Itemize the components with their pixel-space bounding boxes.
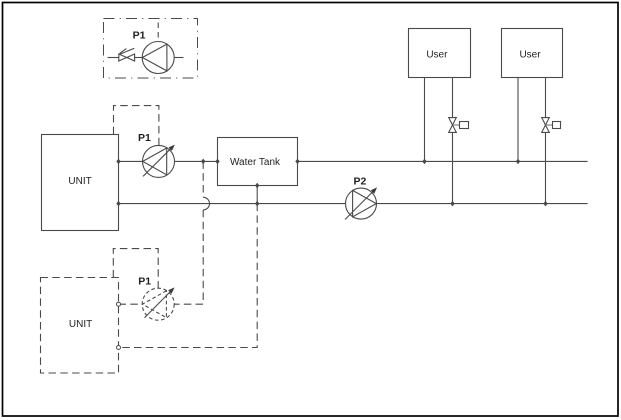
wire user2 supply drop <box>517 78 519 162</box>
pump P2 (variable speed) <box>345 188 377 219</box>
callout C2 (dashed, above future pump) <box>113 249 158 288</box>
wire lower pipe: unit to pump P2 <box>119 203 346 205</box>
wire hop arc over lower pipe <box>203 197 209 210</box>
svg-text:P1: P1 <box>138 132 151 144</box>
svg-text:User: User <box>426 50 448 61</box>
unit box U2 (dashed future) <box>41 278 119 374</box>
wire dashed future pump inlet <box>119 303 143 305</box>
wire user2 return lower <box>545 132 547 203</box>
svg-text:P2: P2 <box>354 176 367 188</box>
wire tank bottom drop <box>256 186 258 204</box>
valve V3 (user2 control valve) <box>542 118 561 133</box>
wire detail outlet stub <box>174 57 183 59</box>
svg-text:UNIT: UNIT <box>69 319 92 330</box>
wire user2 return upper <box>545 78 547 118</box>
wire lower pipe: pump P2 to right end <box>377 203 588 205</box>
detail box D1 (dash-dot callout, top-left) <box>104 19 198 79</box>
wire dashed future return riser <box>119 204 258 348</box>
pump symbol (detail box) <box>142 42 174 74</box>
svg-text:User: User <box>519 50 541 61</box>
unit box U1 (solid) <box>42 135 119 231</box>
user box 1 <box>409 29 471 78</box>
callout C1 (dashed, above pump P1) <box>114 106 159 146</box>
wire user1 return upper <box>452 78 454 118</box>
svg-text:P1: P1 <box>133 29 146 41</box>
valve V1 (balancing valve in detail box) <box>119 48 135 61</box>
wire valve to pump <box>135 57 143 59</box>
user box 2 <box>502 29 563 78</box>
pump P1 (variable speed) <box>143 145 175 177</box>
wire detail top dashed stub <box>157 23 159 42</box>
svg-text:Water Tank: Water Tank <box>230 157 281 168</box>
wire upper pipe: pump to water tank <box>175 160 218 162</box>
wire detail inlet stub <box>108 57 119 59</box>
wire dashed future supply riser <box>174 161 203 304</box>
wire upper pipe: tank to right end <box>298 160 588 162</box>
valve V2 (user1 control valve) <box>449 118 469 133</box>
node circles on dashed unit <box>117 302 121 349</box>
node junction diamonds <box>116 159 547 207</box>
svg-text:P1: P1 <box>138 276 151 288</box>
svg-text:UNIT: UNIT <box>68 176 91 187</box>
water tank box <box>218 138 298 186</box>
pump P1 future (dashed) <box>142 288 174 320</box>
wire user1 return lower <box>452 132 454 203</box>
wire user1 supply drop <box>424 78 426 162</box>
wire upper pipe: unit to pump <box>119 160 143 162</box>
